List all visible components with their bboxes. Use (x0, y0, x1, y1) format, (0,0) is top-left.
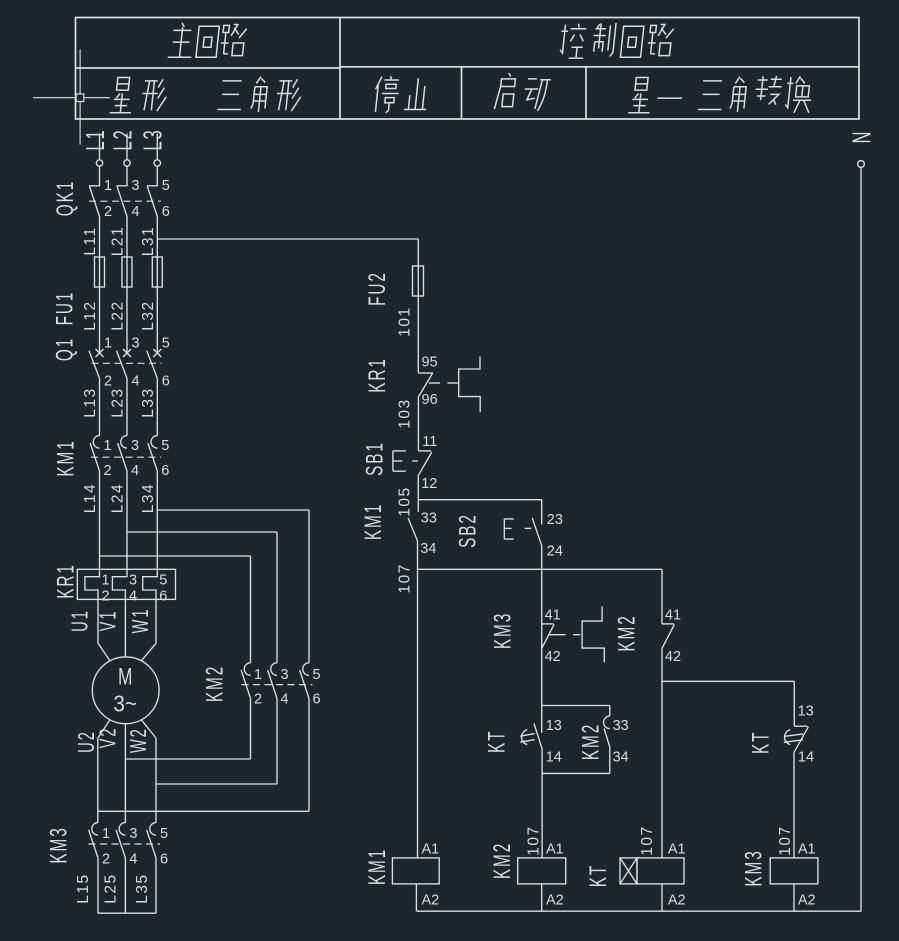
svg-text:KT: KT (484, 730, 510, 753)
svg-text:42: 42 (545, 649, 561, 665)
label V1 (96, 610, 121, 632)
wire L21 (110, 217, 128, 353)
svg-text:KM3: KM3 (46, 826, 72, 863)
svg-text:3: 3 (132, 178, 140, 194)
switch QK1 pole 3-4 (117, 178, 140, 220)
svg-text:L11: L11 (82, 226, 99, 255)
wire L2 to QK1 (126, 166, 128, 186)
svg-text:95: 95 (422, 355, 438, 371)
contactor KM2 pole 3-4 (268, 663, 289, 708)
wire L25 (103, 858, 126, 913)
svg-text:KT: KT (748, 731, 774, 754)
svg-text:W2: W2 (127, 727, 152, 753)
svg-text:41: 41 (545, 608, 561, 624)
svg-text:L32: L32 (140, 300, 157, 330)
label KM3 main (46, 826, 72, 863)
contactor KM2 linkage (242, 684, 313, 686)
svg-text:A2: A2 (422, 893, 440, 909)
svg-text:L15: L15 (75, 873, 92, 903)
svg-text:3: 3 (131, 438, 139, 454)
wire KM3 coil branch (793, 752, 795, 858)
breaker Q1 pole 5-6 (147, 336, 170, 390)
svg-text:L23: L23 (110, 387, 127, 417)
label KR1 (53, 563, 79, 599)
svg-text:2: 2 (104, 374, 112, 390)
svg-text:12: 12 (421, 476, 437, 492)
title cell text 控制回路 (559, 23, 675, 58)
motor M 3~ (92, 657, 159, 724)
svg-text:KM3: KM3 (490, 612, 516, 649)
svg-text:KM1: KM1 (53, 439, 79, 476)
svg-text:A1: A1 (668, 841, 686, 857)
svg-text:6: 6 (162, 204, 170, 220)
breaker Q1 linkage (92, 362, 162, 364)
svg-text:5: 5 (159, 573, 167, 589)
svg-text:L24: L24 (110, 483, 127, 513)
svg-text:107: 107 (777, 825, 794, 855)
label QK1 (53, 180, 79, 216)
svg-text:L13: L13 (82, 387, 99, 417)
svg-text:L12: L12 (82, 300, 99, 330)
svg-text:33: 33 (613, 718, 629, 734)
wire KM1 coil branch (417, 541, 419, 858)
switch QK1 pole 1-2 (89, 178, 112, 220)
thermal relay KR1 heater 3-4 (112, 569, 137, 604)
fuse FU1 pole 3 (140, 257, 163, 331)
wire 105 (417, 476, 419, 512)
svg-text:A2: A2 (798, 893, 816, 909)
thermal relay KR1 heater 5-6 (143, 569, 168, 604)
title cell text 主回路 (168, 23, 247, 57)
wire L3 to QK1 (156, 166, 158, 186)
coil KM1 (365, 841, 440, 911)
wire U2 from motor (75, 719, 110, 822)
svg-text:1: 1 (104, 438, 112, 454)
svg-text:A2: A2 (668, 893, 686, 909)
svg-text:KM2: KM2 (578, 723, 604, 760)
label KM2 main (202, 665, 228, 702)
svg-text:41: 41 (665, 608, 681, 624)
contact KM2 aux 41-42 (614, 569, 681, 665)
svg-text:101: 101 (396, 306, 413, 336)
svg-text:103: 103 (396, 398, 413, 428)
wire L1 to QK1 (99, 166, 101, 186)
svg-text:1: 1 (104, 336, 112, 352)
svg-text:4: 4 (129, 852, 137, 868)
button SB1 stop (362, 434, 437, 517)
svg-text:13: 13 (798, 704, 814, 720)
svg-text:4: 4 (132, 374, 140, 390)
svg-text:U1: U1 (68, 609, 93, 632)
svg-text:24: 24 (547, 544, 563, 560)
fuse FU2 (365, 266, 424, 337)
fuse FU1 pole 1 (82, 257, 105, 331)
wire W2 from motor (127, 719, 156, 822)
svg-text:5: 5 (160, 826, 168, 842)
svg-text:14: 14 (546, 749, 562, 765)
contact KR1 95-96 (365, 355, 480, 429)
wire L11 (82, 217, 100, 353)
node L3 supply terminal (138, 128, 168, 166)
coil KM3 (741, 825, 818, 911)
node N terminal (847, 130, 877, 168)
contactor KM3 pole 5-6 (147, 823, 168, 868)
wire parallel block bottom (542, 747, 610, 773)
svg-text:6: 6 (162, 374, 170, 390)
svg-text:107: 107 (525, 825, 542, 855)
svg-text:KM2: KM2 (614, 614, 640, 651)
svg-text:L14: L14 (82, 483, 99, 513)
svg-text:6: 6 (159, 589, 167, 605)
svg-text:96: 96 (422, 392, 438, 408)
title cell text 星一 三角转换 (628, 76, 814, 113)
wire L31 (140, 217, 158, 353)
svg-text:6: 6 (313, 692, 321, 708)
svg-text:N: N (847, 130, 877, 144)
svg-text:KM1: KM1 (365, 848, 391, 885)
wire L23 (110, 378, 128, 436)
svg-text:33: 33 (421, 511, 437, 527)
wire U2 to KM2 pole 6 (98, 698, 309, 811)
svg-text:2: 2 (104, 463, 112, 479)
svg-text:M: M (118, 664, 132, 690)
switch QK1 pole 5-6 (147, 178, 170, 220)
fuse FU1 pole 2 (110, 257, 133, 331)
svg-text:L25: L25 (103, 873, 120, 903)
contactor KM3 linkage (89, 843, 161, 845)
svg-text:L35: L35 (134, 873, 151, 903)
coil KT (586, 825, 686, 911)
thermal relay KR1 heater 1-2 (85, 569, 110, 604)
wire to KT delayed contact (662, 681, 794, 726)
svg-text:A1: A1 (422, 841, 440, 857)
wire V1 to motor (124, 599, 126, 657)
wire 103 (417, 397, 419, 451)
contact KT 13-14 delayed (484, 706, 562, 766)
svg-text:4: 4 (129, 589, 137, 605)
svg-text:3: 3 (129, 826, 137, 842)
svg-text:107: 107 (639, 825, 656, 855)
svg-text:1: 1 (102, 573, 110, 589)
wire L24 (110, 471, 128, 569)
svg-text:2: 2 (102, 589, 110, 605)
contact KM1 aux 33-34 (361, 503, 437, 594)
wire L24 tap to KM2 pole 3 (127, 532, 277, 663)
contactor KM1 pole 1-2 (90, 436, 111, 479)
title cell text 停止 (373, 76, 429, 113)
svg-text:W1: W1 (129, 608, 154, 634)
contactor KM3 pole 3-4 (116, 823, 137, 868)
svg-text:3: 3 (129, 573, 137, 589)
title cell text 启动 (494, 73, 551, 111)
svg-text:FU2: FU2 (365, 271, 391, 306)
title cell text 三角形 (217, 77, 302, 112)
svg-text:A2: A2 (546, 893, 564, 909)
label KM1 (53, 439, 79, 476)
svg-text:34: 34 (613, 749, 629, 765)
title cell text 星形 (110, 78, 168, 113)
svg-text:KT: KT (586, 864, 612, 887)
svg-text:KM3: KM3 (741, 849, 767, 886)
wire W1 to motor (141, 599, 156, 661)
svg-text:A1: A1 (546, 841, 564, 857)
svg-text:1: 1 (104, 178, 112, 194)
node L2 supply terminal (108, 128, 138, 166)
wire V2 from motor (96, 724, 125, 823)
svg-text:L33: L33 (140, 387, 157, 417)
wire U1 to motor (98, 599, 110, 661)
svg-text:4: 4 (281, 692, 289, 708)
svg-text:2: 2 (254, 692, 262, 708)
svg-text:SB2: SB2 (455, 513, 481, 548)
star point bar (98, 912, 156, 914)
svg-text:5: 5 (162, 336, 170, 352)
svg-text:42: 42 (665, 649, 681, 665)
svg-text:13: 13 (546, 718, 562, 734)
svg-text:SB1: SB1 (362, 441, 388, 476)
wire N rail (416, 167, 861, 911)
svg-text:L34: L34 (140, 483, 157, 513)
svg-text:A1: A1 (798, 841, 816, 857)
label FU1 (52, 291, 78, 326)
title table frame (76, 18, 860, 120)
svg-text:V2: V2 (96, 727, 121, 749)
svg-text:105: 105 (396, 486, 413, 516)
svg-text:1: 1 (254, 667, 262, 683)
switch QK1 linkage (89, 200, 161, 202)
wire parallel block top (542, 705, 610, 707)
wire L14 (82, 471, 100, 569)
svg-text:KM1: KM1 (361, 503, 387, 540)
svg-text:FU1: FU1 (52, 291, 78, 326)
contact KT 13-14 delayed right (748, 704, 814, 766)
label U1 (68, 609, 93, 632)
wire L34 (140, 471, 158, 569)
svg-text:6: 6 (160, 852, 168, 868)
wire KM2 coil branch (541, 749, 543, 858)
svg-text:Q1: Q1 (52, 337, 78, 361)
contactor KM1 pole 3-4 (118, 436, 139, 479)
wire L14 tap to KM2 pole 1 (100, 556, 251, 663)
svg-text:3: 3 (132, 336, 140, 352)
wire to SB2 (418, 499, 541, 501)
label W1 (129, 608, 154, 634)
svg-text:23: 23 (547, 512, 563, 528)
svg-text:QK1: QK1 (53, 180, 79, 216)
svg-text:L22: L22 (110, 300, 127, 330)
wire 107 rail (418, 568, 663, 570)
svg-text:KM2: KM2 (490, 842, 516, 879)
svg-text:1: 1 (102, 826, 110, 842)
svg-text:L1: L1 (80, 128, 110, 150)
node L1 supply terminal (80, 128, 110, 166)
wire W2 to KM2 pole 4 (156, 698, 277, 784)
svg-text:11: 11 (422, 434, 437, 450)
wire V2 to KM2 pole 2 (125, 698, 250, 759)
svg-text:2: 2 (104, 204, 112, 220)
svg-text:5: 5 (162, 178, 170, 194)
wire L15 (75, 858, 98, 913)
svg-text:L21: L21 (110, 226, 127, 256)
svg-text:4: 4 (132, 204, 140, 220)
wire L33 (140, 378, 158, 436)
wire L35 (134, 858, 156, 913)
button SB2 start (455, 500, 563, 560)
label Q1 (52, 337, 78, 361)
svg-text:14: 14 (798, 750, 814, 766)
wire L34 tap to KM2 pole 5 (157, 510, 309, 663)
svg-text:3~: 3~ (113, 690, 137, 716)
contact KM3 aux 41-42 (490, 606, 604, 665)
svg-text:5: 5 (313, 667, 321, 683)
contactor KM1 linkage (91, 456, 161, 458)
svg-text:4: 4 (131, 463, 139, 479)
contact KM2 aux 33-34 (578, 706, 629, 766)
svg-text:107: 107 (397, 563, 414, 593)
svg-text:3: 3 (281, 667, 289, 683)
svg-text:L31: L31 (140, 226, 157, 256)
svg-text:5: 5 (161, 438, 169, 454)
coil KM2 (490, 825, 566, 911)
wire L13 (82, 378, 100, 436)
breaker Q1 pole 1-2 (89, 336, 112, 390)
svg-text:KR1: KR1 (53, 563, 79, 599)
contactor KM3 pole 1-2 (89, 823, 110, 868)
svg-text:KM2: KM2 (202, 665, 228, 702)
svg-text:KR1: KR1 (365, 357, 391, 393)
contactor KM2 pole 5-6 (300, 663, 321, 708)
thermal relay KR1 box (77, 569, 175, 599)
svg-text:6: 6 (161, 463, 169, 479)
svg-text:L3: L3 (138, 128, 168, 150)
wire KT coil branch (661, 648, 663, 858)
svg-text:L2: L2 (108, 128, 138, 150)
svg-text:2: 2 (102, 852, 110, 868)
svg-text:34: 34 (420, 541, 436, 557)
contactor KM1 pole 5-6 (148, 436, 169, 479)
wire control tap (157, 239, 418, 373)
svg-text:V1: V1 (96, 610, 121, 632)
cursor crosshair (33, 49, 110, 144)
breaker Q1 pole 3-4 (117, 336, 140, 390)
wire SB2 to KM3 contact (541, 546, 543, 706)
contactor KM2 pole 1-2 (241, 663, 262, 708)
